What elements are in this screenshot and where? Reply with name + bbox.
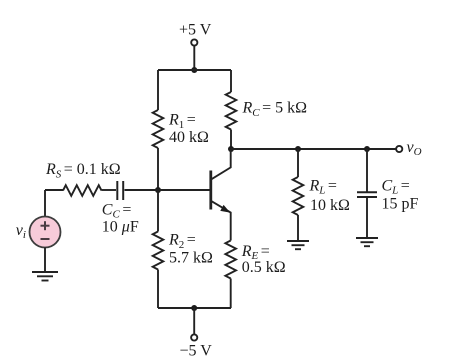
resistor RC <box>226 92 237 130</box>
wire: vi to RS <box>45 189 63 191</box>
svg-text:10 μF: 10 μF <box>102 219 139 236</box>
node: RL junction <box>295 146 301 152</box>
svg-text:0.5 kΩ: 0.5 kΩ <box>242 259 286 276</box>
wire: R2 to bottom rail <box>157 270 159 309</box>
svg-text:vi: vi <box>16 222 26 241</box>
resistor R2 <box>153 232 164 270</box>
node: base node junction <box>155 187 161 193</box>
svg-text:10 kΩ: 10 kΩ <box>310 197 350 214</box>
wire: top rail <box>158 69 231 71</box>
wire: CC to base node <box>125 189 159 191</box>
ground (below CL) <box>356 238 378 246</box>
wire: base node to R2 <box>157 190 159 232</box>
svg-text:CL=: CL= <box>382 177 410 196</box>
svg-text:40 kΩ: 40 kΩ <box>169 129 209 146</box>
node: CL junction <box>364 146 370 152</box>
svg-text:15 pF: 15 pF <box>382 196 419 213</box>
node: top rail junction <box>191 67 197 73</box>
svg-text:vO: vO <box>407 139 422 158</box>
svg-text:RS= 0.1 kΩ: RS= 0.1 kΩ <box>45 161 121 180</box>
wire: RC branch top <box>230 70 232 92</box>
svg-text:RL=: RL= <box>309 177 337 196</box>
label RL = 10 kOhm <box>309 177 351 214</box>
resistor RL <box>293 177 304 215</box>
wire: base wire <box>158 189 210 191</box>
+5 V supply terminal <box>191 39 197 70</box>
-5 V supply terminal <box>191 308 197 341</box>
wire: RL branch <box>297 149 299 177</box>
resistor R1 <box>153 110 164 148</box>
resistor RS <box>63 185 102 196</box>
resistor RE <box>225 241 236 279</box>
svg-text:RC= 5 kΩ: RC= 5 kΩ <box>242 100 308 119</box>
wire: bottom rail <box>158 307 231 309</box>
label R2 = 5.7 kOhm <box>168 232 213 267</box>
wire: RC to collector node <box>230 130 232 150</box>
wire: R1 to base node <box>157 148 159 190</box>
label CC = 10 uF <box>102 201 139 235</box>
capacitor CC <box>117 181 123 200</box>
wire: R1 branch top <box>157 70 159 110</box>
ground (below RL) <box>287 241 309 249</box>
node: bottom rail junction <box>191 305 197 311</box>
output terminal vO <box>396 146 402 152</box>
svg-text:−5 V: −5 V <box>180 343 213 360</box>
svg-text:R2=: R2= <box>168 232 196 251</box>
label CL = 15 pF <box>382 177 419 212</box>
wire: RS to CC <box>102 189 117 191</box>
ground (below vi) <box>32 272 58 281</box>
wire: output rail <box>231 148 396 150</box>
label RE = 0.5 kOhm <box>241 243 286 276</box>
transistor Q1 <box>211 149 231 241</box>
wire: RE to bottom rail <box>230 279 232 309</box>
svg-text:+5 V: +5 V <box>179 21 212 38</box>
wire: CL branch <box>366 149 368 192</box>
node: collector junction <box>228 146 234 152</box>
label R1 = 40 kOhm <box>168 112 209 146</box>
capacitor CL <box>357 192 377 197</box>
svg-text:5.7 kΩ: 5.7 kΩ <box>169 250 213 267</box>
source vi <box>30 190 61 272</box>
wire: CL to ground <box>366 198 368 238</box>
wire: RL to ground <box>297 215 299 241</box>
